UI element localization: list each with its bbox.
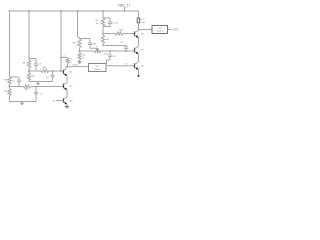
- resistor R7: [73, 39, 81, 49]
- junction L1 output node: [138, 29, 140, 31]
- svg-text:Q3: Q3: [69, 100, 73, 102]
- junction rail-V3: [60, 10, 62, 12]
- svg-text:Vo=2.5: Vo=2.5: [157, 31, 164, 33]
- svg-text:C3: C3: [38, 64, 42, 66]
- transistor Q1: [64, 67, 74, 77]
- wire error amp net: [80, 50, 135, 52]
- transistor Q5: [135, 47, 145, 55]
- junction V1-base wire: [9, 86, 11, 88]
- wire V1 bottom: [9, 96, 11, 102]
- transistor Q4: [135, 30, 145, 38]
- svg-text:fb: fb: [126, 63, 129, 65]
- node VDD_17 label: [118, 3, 131, 11]
- wire R13 bottom net: [103, 44, 126, 46]
- wire cluster top: [29, 58, 36, 60]
- wire V3 drop: [60, 11, 62, 71]
- inductor L1: [137, 11, 145, 30]
- wire V4 drop: [78, 11, 80, 39]
- resistor R1: [4, 77, 11, 85]
- wire node to output box: [139, 29, 153, 31]
- transistor Q6: [135, 62, 145, 70]
- svg-text:R6: R6: [43, 67, 47, 69]
- svg-text:U2: U2: [96, 66, 100, 68]
- capacitor C3: [34, 59, 42, 72]
- svg-text:1k: 1k: [82, 57, 84, 59]
- wire R1-R2 link: [9, 85, 11, 89]
- ground GND1: [20, 102, 23, 105]
- svg-text:VDD_17: VDD_17: [118, 3, 131, 7]
- svg-text:R4: R4: [95, 20, 98, 22]
- svg-text:Q2: Q2: [69, 86, 73, 88]
- svg-text:R8: R8: [82, 54, 85, 56]
- wire Q6 emitter: [138, 69, 140, 75]
- junction V3-Q1 base: [60, 70, 62, 72]
- node OUT label: [173, 30, 180, 32]
- svg-text:IN: IN: [53, 100, 56, 102]
- wire Q4 base net: [103, 33, 135, 35]
- junction rail-V5: [102, 10, 104, 12]
- wire Q3 base stub: [53, 100, 64, 102]
- resistor R12: [115, 30, 124, 35]
- resistor R2: [4, 89, 11, 97]
- wire Q1 base net: [29, 70, 64, 72]
- wire V1 left drop: [9, 11, 11, 77]
- capacitor C6: [120, 42, 128, 51]
- svg-text:1k: 1k: [70, 61, 72, 63]
- junction divider V4 mid: [79, 50, 81, 52]
- svg-text:R7: R7: [73, 42, 77, 44]
- junction V3 tap: [60, 56, 66, 59]
- ground GND3: [65, 104, 69, 108]
- svg-text:1k: 1k: [94, 43, 96, 45]
- svg-text:LT1004: LT1004: [94, 69, 102, 71]
- svg-text:R1: R1: [4, 80, 8, 82]
- resistor R9: [66, 58, 73, 67]
- wire box output: [168, 29, 172, 31]
- capacitor C1: [10, 77, 22, 87]
- wire R4-R5 link: [28, 68, 30, 73]
- svg-text:C2: C2: [39, 94, 43, 96]
- ground GND4: [78, 60, 82, 63]
- svg-text:R2: R2: [4, 91, 8, 93]
- resistor R6: [41, 67, 49, 73]
- svg-text:Q6: Q6: [141, 65, 145, 67]
- junction rail-VDD tap: [124, 10, 126, 12]
- block output box: [152, 26, 168, 34]
- wire Q5-Q6 chain: [138, 54, 140, 62]
- svg-text:1uH: 1uH: [141, 22, 145, 24]
- svg-text:OUT1: OUT1: [72, 65, 78, 67]
- wire bottom-left net: [10, 101, 37, 103]
- capacitor C5: [80, 39, 96, 49]
- wire Q4-Q5 chain: [138, 38, 140, 47]
- svg-text:Q1: Q1: [69, 72, 73, 74]
- ground GND5: [138, 75, 140, 77]
- junction base net Q4: [102, 33, 104, 47]
- resistor R3: [23, 85, 31, 91]
- junction C6 bottom: [125, 50, 127, 52]
- svg-text:L1: L1: [141, 19, 144, 21]
- wire V5 drop: [102, 11, 104, 18]
- junction rail-V4: [77, 10, 79, 12]
- capacitor C8: [107, 50, 116, 63]
- ground GND2: [37, 82, 40, 85]
- junction rail-R1: [9, 10, 11, 12]
- svg-text:+7V: +7V: [158, 28, 162, 30]
- svg-text:a: a: [96, 46, 97, 48]
- capacitor C2: [34, 87, 43, 102]
- wire R9 top feed: [61, 57, 68, 59]
- wire U2 out to Q6 base: [106, 63, 135, 65]
- transistor Q3: [64, 97, 74, 104]
- svg-text:R5: R5: [32, 76, 36, 78]
- junction Q1 collector node: [67, 66, 69, 68]
- svg-text:C7 1u: C7 1u: [112, 23, 117, 25]
- svg-text:R13: R13: [105, 39, 110, 41]
- svg-text:C8: C8: [112, 56, 116, 58]
- resistor R13: [94, 34, 110, 46]
- svg-text:Q4: Q4: [141, 33, 145, 35]
- svg-text:OUT1: OUT1: [173, 30, 180, 32]
- svg-text:1k: 1k: [96, 23, 98, 25]
- wire divider bottom: [29, 81, 53, 82]
- resistor R4: [22, 59, 30, 69]
- wire Q1-Q2 chain: [66, 76, 68, 84]
- resistor R5: [27, 73, 35, 81]
- wire R11 bottom: [102, 27, 104, 34]
- svg-text:9.1: 9.1: [70, 58, 74, 60]
- transistor Q2: [64, 83, 74, 91]
- capacitor C7: [103, 18, 118, 27]
- junction rail-V2: [28, 10, 30, 12]
- svg-text:R3: R3: [25, 89, 29, 91]
- junction C2 tap: [35, 86, 37, 88]
- wire V2 drop: [28, 11, 30, 59]
- wire V4 mid link: [79, 48, 81, 53]
- svg-text:R4: R4: [22, 63, 26, 65]
- svg-text:C4: C4: [46, 77, 50, 79]
- svg-text:C1: C1: [12, 81, 16, 83]
- junction C4 tap: [52, 70, 54, 72]
- resistor R10: [94, 46, 109, 55]
- wire Q2 base net: [10, 86, 64, 88]
- wire Q2-Q3 chain: [66, 90, 68, 98]
- resistor R8: [78, 53, 86, 61]
- capacitor C4: [46, 71, 55, 82]
- resistor R11: [95, 18, 104, 27]
- op-amp U2 box: [89, 64, 107, 72]
- wire top supply rail: [10, 10, 139, 12]
- svg-text:C6: C6: [120, 42, 124, 44]
- svg-text:R12: R12: [119, 30, 124, 32]
- svg-text:Q5: Q5: [141, 50, 145, 52]
- junction divider mid: [28, 70, 30, 72]
- wire Q1 collector to U2: [66, 65, 89, 67]
- wire C5 bottom jog: [90, 48, 98, 51]
